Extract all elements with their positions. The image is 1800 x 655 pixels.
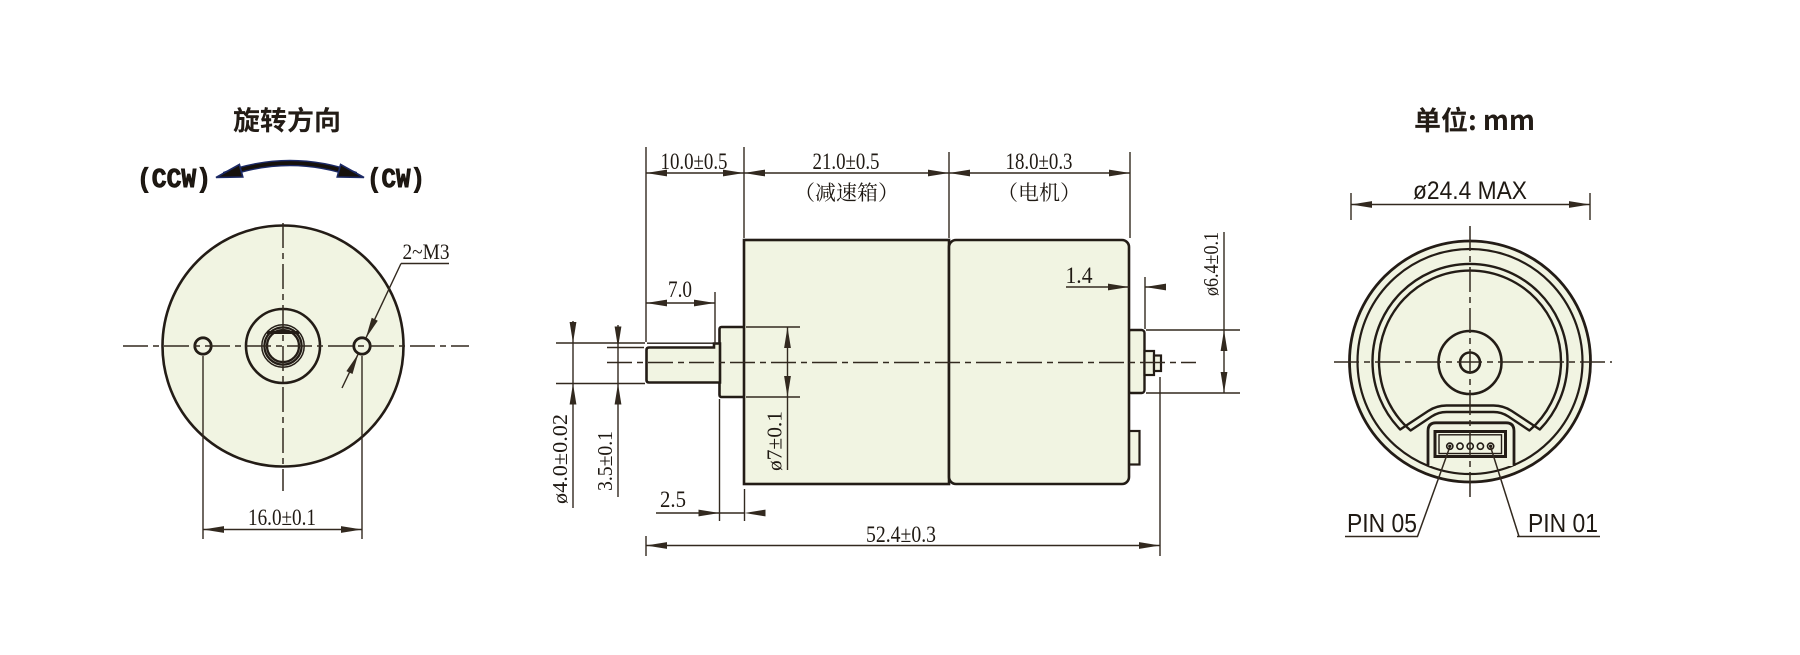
rear boss circle	[1439, 331, 1502, 394]
svg-text:1.4: 1.4	[1066, 263, 1093, 288]
rear center hole	[1460, 353, 1480, 373]
curved double arrow CCW/CW	[224, 163, 356, 175]
mounting hole right	[354, 338, 370, 354]
svg-text:2~M3: 2~M3	[403, 239, 450, 264]
connector inner rect	[1439, 435, 1502, 454]
terminal tab bottom right	[1128, 431, 1140, 465]
dimension 1.4 (rear hub)	[1144, 277, 1146, 329]
dimension 10.0±0.5	[646, 172, 744, 174]
center boss circle	[246, 309, 320, 383]
title 旋转方向 (rotation direction)	[234, 107, 339, 133]
svg-text:(CCW): (CCW)	[137, 166, 211, 196]
dimension 3.5±0.1 (flat height)	[607, 347, 644, 349]
svg-text:2.5: 2.5	[660, 487, 686, 512]
dimension 18.0±0.3 (motor)	[949, 172, 1130, 174]
shaft hole outer circle	[264, 327, 301, 364]
dimension ø7±0.1 (hub dia)	[746, 326, 800, 328]
svg-text:(CW): (CW)	[367, 166, 425, 196]
svg-text:21.0±0.5: 21.0±0.5	[813, 149, 880, 174]
connector pins	[1447, 443, 1453, 449]
dimension ø24.4 MAX	[1350, 193, 1352, 220]
front shaft (ø4 with flat)	[647, 344, 721, 383]
svg-text:3.5±0.1: 3.5±0.1	[593, 431, 617, 491]
connector housing	[1428, 423, 1514, 466]
rear shaft stub	[1145, 351, 1155, 375]
dimension ø4.0±0.02 (shaft dia)	[556, 342, 645, 344]
svg-text:ø7±0.1: ø7±0.1	[763, 411, 787, 471]
motor body	[949, 240, 1129, 484]
dimension 7.0 (flat length)	[714, 292, 716, 344]
rear rim circle	[1358, 249, 1583, 474]
svg-text:52.4±0.3: 52.4±0.3	[866, 522, 936, 547]
svg-text:ø24.4 MAX: ø24.4 MAX	[1413, 177, 1527, 205]
extension lines top dims	[645, 147, 647, 342]
PIN 01 label with leader	[1491, 447, 1519, 537]
dimension 52.4±0.3 (overall)	[645, 536, 647, 556]
svg-text:ø4.0±0.02: ø4.0±0.02	[548, 414, 572, 504]
shaft full-diameter silhouette line over flat	[647, 342, 713, 344]
svg-text:ø6.4±0.1: ø6.4±0.1	[1199, 232, 1223, 296]
rear shaft stub tip	[1154, 356, 1161, 372]
horizontal centerline left view	[123, 345, 469, 347]
shaft collar circle	[262, 325, 304, 367]
svg-text:7.0: 7.0	[668, 277, 692, 302]
svg-text:16.0±0.1: 16.0±0.1	[248, 505, 316, 530]
dimension 21.0±0.5 (gearbox)	[744, 172, 949, 174]
left boss (bearing hub ø7)	[720, 327, 745, 397]
gearbox body	[744, 240, 949, 484]
shaft hole inner circle	[267, 330, 299, 362]
shaft D-flat chord	[267, 331, 299, 334]
svg-text:10.0±0.5: 10.0±0.5	[661, 149, 728, 174]
mounting hole left	[195, 338, 211, 354]
title 单位: mm	[1415, 107, 1533, 133]
front face outer circle	[163, 226, 404, 467]
dimension 2.5	[719, 399, 721, 521]
vertical centerline left view	[282, 223, 284, 491]
middle view centerline	[607, 362, 1196, 364]
rear outer circle	[1350, 241, 1591, 482]
svg-text:18.0±0.3: 18.0±0.3	[1006, 149, 1073, 174]
rear face contour inner	[1379, 271, 1561, 431]
dimension 16.0±0.1	[202, 356, 204, 539]
svg-text:PIN 05: PIN 05	[1347, 508, 1417, 538]
rear view centerlines	[1469, 226, 1471, 497]
PIN 05 label with leader	[1418, 447, 1450, 537]
connector shell rect	[1435, 432, 1506, 457]
dimension ø6.4±0.1 (rear hub dia)	[1146, 329, 1240, 331]
right boss (rear hub ø6.4)	[1128, 330, 1145, 393]
rear face contour outer	[1373, 264, 1568, 430]
svg-text:PIN 01: PIN 01	[1528, 508, 1598, 538]
